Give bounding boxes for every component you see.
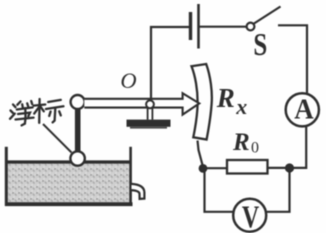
wire: left node to R0 bbox=[204, 167, 228, 169]
character 标 wood vertical bbox=[38, 99, 41, 123]
node B: right junction dot bbox=[286, 165, 293, 172]
battery (cell) long plate bbox=[197, 4, 200, 49]
pivot base block bbox=[127, 120, 171, 127]
svg-text:R: R bbox=[216, 83, 235, 113]
pivot pin circle at O bbox=[146, 100, 154, 108]
lever left end circle bbox=[71, 95, 85, 109]
tank left wall bbox=[5, 147, 8, 206]
water fill bbox=[8, 162, 131, 205]
character 标 left dot bbox=[49, 112, 50, 117]
character 浮 water-radical rising stroke bbox=[10, 114, 15, 119]
svg-text:0: 0 bbox=[251, 140, 259, 157]
wire: switch to top-right corner and down to ammeter bbox=[278, 25, 307, 93]
rheostat Rx curved strip bbox=[192, 64, 212, 140]
battery (cell) short plate bbox=[189, 12, 192, 40]
resistor R0 body bbox=[227, 160, 268, 174]
svg-text:x: x bbox=[235, 94, 247, 119]
character 标 vertical hook bbox=[53, 108, 56, 122]
wire: battery left terminal down to pivot bbox=[151, 27, 189, 101]
character 浮 claw tick 2 bbox=[27, 103, 28, 106]
character 标 right dot bbox=[59, 111, 61, 115]
wire: ammeter down to right node bbox=[290, 127, 307, 168]
float ball bbox=[70, 151, 84, 165]
tank spout bbox=[132, 184, 145, 199]
character 浮 water-radical dot 1 bbox=[13, 105, 16, 108]
wire: battery to switch bbox=[200, 26, 247, 28]
character 浮 upper horizontal bbox=[17, 107, 33, 109]
ammeter U1 circle bbox=[286, 93, 319, 126]
wire: voltmeter loop bbox=[205, 170, 234, 212]
voltmeter V circle bbox=[233, 199, 266, 232]
wire: R0 to right node bbox=[268, 167, 290, 169]
lever bar with wiper arrow bbox=[84, 93, 199, 114]
svg-text:R: R bbox=[232, 129, 250, 156]
water surface line bbox=[6, 160, 131, 163]
svg-text:A: A bbox=[294, 94, 314, 126]
character 浮 hook stroke bbox=[18, 113, 30, 117]
character 浮 claw tick 3 bbox=[31, 101, 32, 104]
character 浮 vertical hook bbox=[22, 108, 26, 125]
character 标 wood left-falling bbox=[34, 107, 39, 114]
character 标 wood right-falling bbox=[41, 107, 44, 112]
tank bottom bbox=[5, 202, 133, 206]
character 浮 long horizontal bbox=[16, 118, 34, 120]
switch S hinge circle bbox=[247, 23, 255, 31]
svg-text:S: S bbox=[253, 27, 267, 63]
wire: Rx bottom terminal to left node bbox=[198, 141, 203, 166]
label pointer line for 浮标 bbox=[43, 124, 72, 153]
svg-text:V: V bbox=[242, 200, 260, 233]
tank right wall bbox=[129, 147, 132, 203]
wire: voltmeter to right node bbox=[266, 168, 289, 212]
character 浮 claw tick 1 bbox=[21, 104, 24, 107]
character 浮 claw slash bbox=[17, 102, 20, 105]
label 浮标 (float marker), hand-drawn strokes bbox=[10, 99, 64, 125]
pivot stand legs bbox=[147, 108, 149, 120]
character 标 long horizontal bbox=[46, 106, 64, 109]
character 浮 water-radical dot 2 bbox=[11, 111, 14, 114]
lever float rod bbox=[75, 106, 81, 153]
node A: left junction dot bbox=[200, 165, 207, 172]
character 标 wood horizontal bbox=[34, 105, 46, 106]
svg-text:O: O bbox=[120, 68, 136, 93]
character 标 top horizontal bbox=[48, 100, 61, 102]
switch S blade bbox=[254, 7, 281, 24]
